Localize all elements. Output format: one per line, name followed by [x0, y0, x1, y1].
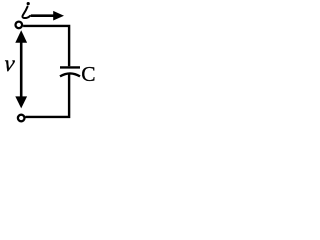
wire: capacitor bottom plate down to bottom-right corner, left to bottom terminal	[26, 74, 70, 117]
capacitor C top plate	[60, 66, 80, 68]
current arrow: head	[53, 11, 64, 21]
svg-text:C: C	[81, 62, 95, 86]
node terminal top-left	[15, 22, 22, 29]
voltage arrow v: head up	[15, 30, 27, 43]
voltage arrow v: shaft	[20, 40, 23, 99]
node terminal bottom-left	[18, 115, 25, 122]
current label i (math italic, drawn)	[22, 2, 30, 18]
capacitor C curved bottom plate (arched toward top plate)	[60, 73, 80, 76]
svg-text:v: v	[3, 50, 17, 76]
voltage arrow v: head down	[15, 96, 27, 108]
current arrow: shaft	[31, 14, 55, 17]
wire: top terminal to top-right corner, down to capacitor top plate	[23, 26, 69, 66]
